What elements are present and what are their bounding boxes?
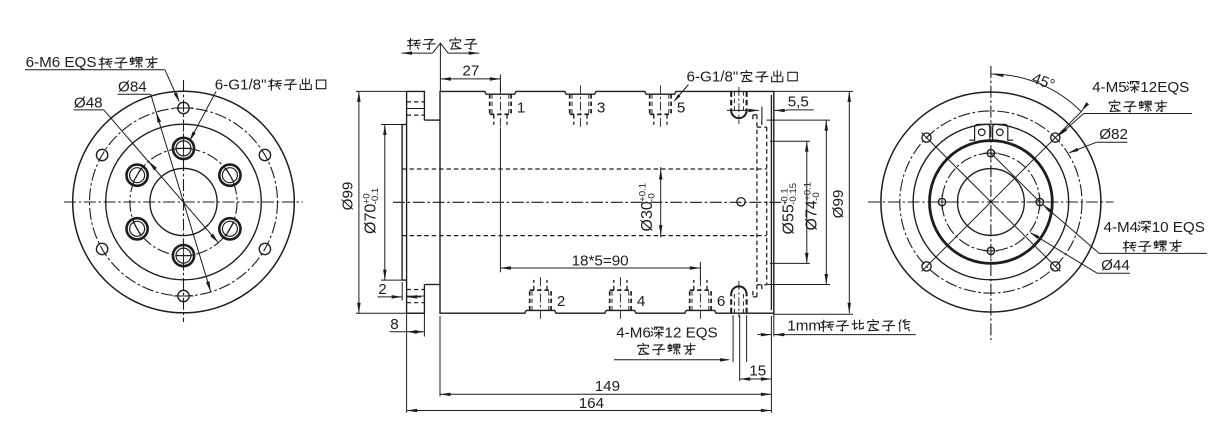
M6 rotor screw hole 5 on Ø84 (178, 290, 189, 301)
outer circle Ø99 (right view) (881, 92, 1101, 312)
svg-text:Ø74: Ø74 (804, 200, 821, 230)
svg-text:Ø70: Ø70 (363, 204, 380, 234)
svg-text:1mm: 1mm (787, 318, 821, 335)
M6 slot extension lines (732, 315, 734, 362)
svg-text:Ø99: Ø99 (830, 190, 847, 219)
svg-text:6-G1/8": 6-G1/8" (215, 76, 267, 93)
svg-text:Ø55: Ø55 (781, 204, 798, 234)
svg-text:Ø99: Ø99 (340, 182, 357, 211)
M4 rotor screw hole on Ø44 (2) (938, 198, 945, 205)
stator body outline Ø99 (440, 91, 774, 313)
center bore Ø30 (left view) (150, 168, 217, 235)
neck Ø74 between flange and stator body (424, 119, 440, 121)
dim Ø30 bore (638, 183, 658, 232)
svg-text:6-G1/8": 6-G1/8" (687, 69, 739, 86)
svg-text:149: 149 (595, 378, 620, 395)
bolt circle Ø48 dash-dot (left view) (130, 148, 237, 255)
svg-text:Ø44: Ø44 (1101, 257, 1130, 274)
svg-text:12 EQS: 12 EQS (665, 325, 718, 342)
svg-text:Ø82: Ø82 (1099, 126, 1128, 143)
svg-text:8: 8 (390, 316, 398, 333)
centerline horizontal (left view) (64, 201, 303, 203)
svg-text:1: 1 (517, 100, 525, 117)
45 degree dimension arc (991, 74, 1081, 112)
svg-text:4-M5: 4-M5 (1092, 79, 1127, 96)
svg-text:6: 6 (717, 293, 725, 310)
M4 rotor screw hole on Ø44 (4) (987, 247, 994, 254)
M5 stator screw hole on Ø82 (4) (1051, 262, 1060, 271)
svg-text:2: 2 (557, 293, 565, 310)
bolt circle Ø84 dash-dot (left view) (90, 108, 278, 296)
connector tabs at top of rotor circle (975, 124, 990, 141)
svg-text:-0: -0 (646, 193, 657, 202)
svg-text:10 EQS: 10 EQS (1152, 219, 1205, 236)
bore Ø30 (right view) (958, 169, 1025, 236)
M4 rotor screw hole on Ø44 (1) (1036, 198, 1043, 205)
stator end cap hidden structure (756, 115, 758, 297)
svg-text:164: 164 (579, 395, 604, 412)
svg-text:6-M6 EQS: 6-M6 EQS (26, 54, 97, 71)
centerline horizontal (right view) (868, 201, 1114, 203)
axis centerline (middle view) (393, 201, 789, 203)
svg-text:2: 2 (378, 281, 386, 298)
M5 stator screw hole on Ø82 (1) (1051, 133, 1060, 142)
M6 rotor screw hole 1 on Ø84 (259, 149, 270, 160)
stator outlet port 1 (top) (489, 94, 491, 114)
body circle Ø70 (left view) (106, 124, 262, 280)
svg-text:-0.15: -0.15 (788, 183, 799, 205)
circle Ø70 (right view) (913, 124, 1069, 280)
5.5 dim extension edge (761, 107, 763, 121)
svg-text:Ø48: Ø48 (74, 94, 103, 111)
rotor flange plate Ø99 x8 (407, 91, 425, 120)
bolt circle Ø82 dash-dot (900, 111, 1082, 293)
svg-text:3: 3 (597, 100, 605, 117)
stator outlet port 3 (top) (569, 94, 571, 114)
stator outlet port 2 (bottom) (529, 290, 531, 310)
M6 rotor screw hole 3 on Ø84 (96, 149, 107, 160)
stator outlet port 5 (top) (649, 94, 651, 114)
centerline vertical (right view) (990, 66, 992, 340)
M5 stator screw hole on Ø82 (3) (922, 262, 931, 271)
svg-text:-0.1: -0.1 (370, 188, 381, 205)
rotor end face (1mm inside stator end) (770, 95, 772, 310)
svg-text:4: 4 (637, 293, 645, 310)
stator outlet port 4 (bottom) (609, 290, 611, 310)
diagonal through M5 holes (135-315) (922, 133, 1061, 272)
flange outer circle Ø99 (left view) (73, 91, 295, 313)
svg-text:4-M4: 4-M4 (1104, 219, 1139, 236)
G1/8 rotor outlet port 6 on Ø48 (219, 218, 240, 239)
dim Ø70 (361, 188, 381, 234)
G1/8 rotor outlet port 5 on Ø48 (173, 245, 194, 266)
M6 holes hidden lines inside flange (407, 101, 425, 103)
svg-text:27: 27 (462, 62, 479, 79)
G1/8 rotor outlet port 1 on Ø48 (219, 165, 240, 186)
svg-text:18*5=90: 18*5=90 (572, 252, 629, 269)
center pin hole at right end (737, 198, 745, 206)
svg-text:5: 5 (677, 100, 685, 117)
M6 x12 stator thread hole (radial, right end) (730, 294, 732, 313)
svg-text:4-M6: 4-M6 (616, 325, 651, 342)
G1/8 rotor outlet port 2 on Ø48 (173, 138, 194, 159)
centerline vertical (left view) (183, 80, 185, 322)
M6 rotor screw hole 6 on Ø84 (259, 243, 270, 254)
diagonal through M5 holes (225-45) extended to 45deg ray (922, 110, 1083, 271)
dim Ø55 (right side) (779, 183, 799, 235)
M5 stator screw hole on Ø82 (2) (922, 133, 931, 142)
bolt circle Ø44 dash-dot (942, 153, 1040, 251)
M6 x12 stator thread hole (radial, right end) (730, 91, 732, 110)
rotor/stator divider marker (407, 39, 420, 50)
stator outlet port 6 (bottom) (689, 290, 691, 310)
G1/8 rotor outlet port 3 on Ø48 (127, 165, 148, 186)
M6 rotor screw hole 2 on Ø84 (178, 102, 189, 113)
G1/8 rotor outlet port 4 on Ø48 (127, 218, 148, 239)
svg-text:12EQS: 12EQS (1140, 79, 1189, 96)
rotor end circle Ø55 bold (930, 141, 1053, 264)
svg-text:-0: -0 (811, 192, 822, 201)
dim Ø74 (right side) (802, 182, 822, 231)
bore Ø30 hidden lines (402, 168, 767, 170)
svg-text:Ø30: Ø30 (639, 201, 656, 231)
M4 rotor screw hole on Ø44 (3) (987, 149, 994, 156)
svg-text:Ø84: Ø84 (118, 79, 147, 96)
rotor hub Ø70 left face (401, 125, 403, 281)
svg-text:15: 15 (749, 362, 766, 379)
M6 rotor screw hole 4 on Ø84 (96, 243, 107, 254)
svg-text:5,5: 5,5 (788, 94, 809, 111)
